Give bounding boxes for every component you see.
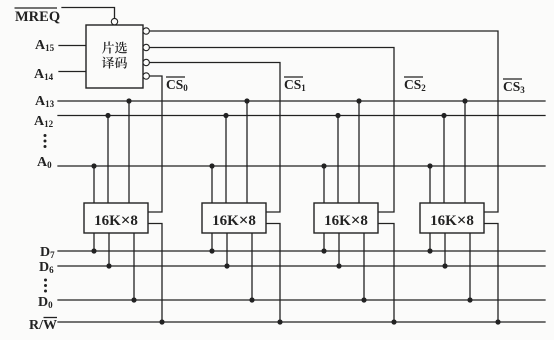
wire A13 bus	[58, 100, 545, 102]
junction chip 3 A0 on A0 bus	[321, 163, 326, 168]
wire chip 2 pin A13	[246, 101, 248, 203]
junction chip 3 R/W on R/W bus	[391, 319, 396, 324]
memory chip U4 16K×8 SRAM	[314, 203, 378, 233]
junction chip 4 D7 on D7 bus	[427, 248, 432, 253]
wire chip 4 pin D0	[469, 233, 471, 300]
decoder U1 active-low output bubble 4	[143, 73, 149, 79]
wire decoder output 1 to chip 4 CS pin (net /CS3)	[149, 31, 498, 212]
label net A14	[34, 67, 54, 82]
svg-text:R/W: R/W	[29, 318, 57, 333]
junction chip 2 A12 on A12 bus	[223, 113, 228, 118]
wire chip 3 R/W pin to R/W bus	[378, 224, 394, 323]
junction chip 3 D6 on D6 bus	[336, 263, 341, 268]
wire chip 2 pin A12	[225, 116, 227, 204]
wire decoder output 3 to chip 2 CS pin (net /CS1)	[149, 63, 280, 213]
svg-text:16K×8: 16K×8	[94, 211, 138, 230]
wire chip 1 pin D6	[108, 233, 110, 266]
wire D7 bus	[58, 250, 545, 252]
memory chip U5 16K×8 SRAM	[420, 203, 484, 233]
wire chip 1 pin A12	[107, 116, 109, 204]
decoder U1 label text 片选译码	[102, 42, 127, 69]
wire A12 bus	[58, 115, 545, 117]
decoder U1 active-low output bubble 1	[143, 28, 149, 34]
junction chip 1 A0 on A0 bus	[91, 163, 96, 168]
label net A15	[35, 38, 55, 53]
wire chip 3 pin A13	[358, 101, 360, 203]
wire chip 2 pin D7	[211, 233, 213, 251]
memory chip U3 16K×8 SRAM	[202, 203, 266, 233]
wire chip 1 pin D0	[133, 233, 135, 300]
wire chip 4 pin A12	[443, 116, 445, 204]
junction chip 4 A0 on A0 bus	[427, 163, 432, 168]
label net MREQ (active low)	[15, 8, 61, 25]
wire R/W bus	[58, 321, 545, 323]
wire chip 1 pin A13	[128, 101, 130, 203]
label net CS1 (active low chip select)	[284, 77, 306, 93]
wire A14 input	[59, 71, 86, 73]
wire D0 bus	[58, 299, 545, 301]
decoder U1 chip-select decoder box	[86, 25, 143, 88]
wire A15 input	[59, 45, 86, 47]
junction chip 1 D6 on D6 bus	[106, 263, 111, 268]
junction chip 4 A12 on A12 bus	[441, 113, 446, 118]
junction chip 4 A13 on A13 bus	[462, 98, 467, 103]
junction chip 1 A13 on A13 bus	[126, 98, 131, 103]
junction chip 2 R/W on R/W bus	[277, 319, 282, 324]
junction chip 4 D6 on D6 bus	[442, 263, 447, 268]
junction chip 3 A13 on A13 bus	[356, 98, 361, 103]
wire chip 3 pin D6	[338, 233, 340, 266]
wire chip 1 pin D7	[93, 233, 95, 251]
memory chip U2 16K×8 SRAM	[84, 203, 148, 233]
wire chip 4 pin D6	[444, 233, 446, 266]
label net CS2 (active low chip select)	[404, 77, 426, 93]
junction chip 2 D6 on D6 bus	[224, 263, 229, 268]
wire D6 bus	[58, 265, 545, 267]
ellipsis between A12 and A0	[44, 134, 47, 148]
label net CS0 (active low chip select)	[166, 77, 188, 93]
junction chip 4 D0 on D0 bus	[467, 297, 472, 302]
decoder U1 active-low output bubble 3	[143, 59, 149, 65]
label net CS3 (active low chip select)	[503, 79, 525, 95]
wire chip 3 pin D7	[323, 233, 325, 251]
wire decoder output 2 to chip 3 CS pin (net /CS2)	[149, 48, 394, 213]
label net A13	[35, 94, 55, 109]
junction chip 2 A13 on A13 bus	[244, 98, 249, 103]
label net D6	[39, 260, 54, 275]
wire chip 3 pin D0	[363, 233, 365, 300]
junction chip 3 D0 on D0 bus	[361, 297, 366, 302]
decoder U1 active-low enable bubble (MREQ)	[111, 18, 117, 24]
wire chip 4 pin D7	[429, 233, 431, 251]
ellipsis between D6 and D0	[44, 279, 47, 293]
svg-text:MREQ: MREQ	[15, 9, 60, 25]
junction chip 3 A12 on A12 bus	[335, 113, 340, 118]
junction chip 2 D7 on D7 bus	[209, 248, 214, 253]
label net D0	[38, 295, 53, 310]
wire chip 4 R/W pin to R/W bus	[484, 224, 498, 323]
junction chip 3 D7 on D7 bus	[321, 248, 326, 253]
junction chip 1 A12 on A12 bus	[105, 113, 110, 118]
svg-text:16K×8: 16K×8	[324, 211, 368, 230]
wire chip 2 R/W pin to R/W bus	[266, 224, 280, 323]
label net D7	[40, 245, 55, 260]
wire chip 4 pin A13	[464, 101, 466, 203]
wire chip 3 pin A0	[323, 166, 325, 203]
junction chip 2 D0 on D0 bus	[249, 297, 254, 302]
label net R/W (write active low)	[29, 318, 57, 334]
wire A0 bus	[58, 165, 545, 167]
decoder U1 active-low output bubble 2	[143, 44, 149, 50]
junction chip 2 A0 on A0 bus	[209, 163, 214, 168]
wire chip 2 pin A0	[211, 166, 213, 203]
wire chip 2 pin D0	[251, 233, 253, 300]
junction chip 4 R/W on R/W bus	[495, 319, 500, 324]
wire MREQ input to decoder top	[62, 8, 115, 19]
wire chip 3 pin A12	[337, 116, 339, 204]
wire chip 1 pin A0	[93, 166, 95, 203]
wire chip 4 pin A0	[429, 166, 431, 203]
label net A12	[34, 114, 54, 129]
junction chip 1 D7 on D7 bus	[91, 248, 96, 253]
label net A0	[37, 155, 52, 170]
junction chip 1 D0 on D0 bus	[131, 297, 136, 302]
wire decoder output 4 to chip 1 CS pin (net /CS0)	[148, 76, 162, 212]
wire chip 1 R/W pin to R/W bus	[148, 224, 162, 323]
junction chip 1 R/W on R/W bus	[159, 319, 164, 324]
svg-text:16K×8: 16K×8	[212, 211, 256, 230]
svg-text:16K×8: 16K×8	[430, 211, 474, 230]
wire chip 2 pin D6	[226, 233, 228, 266]
